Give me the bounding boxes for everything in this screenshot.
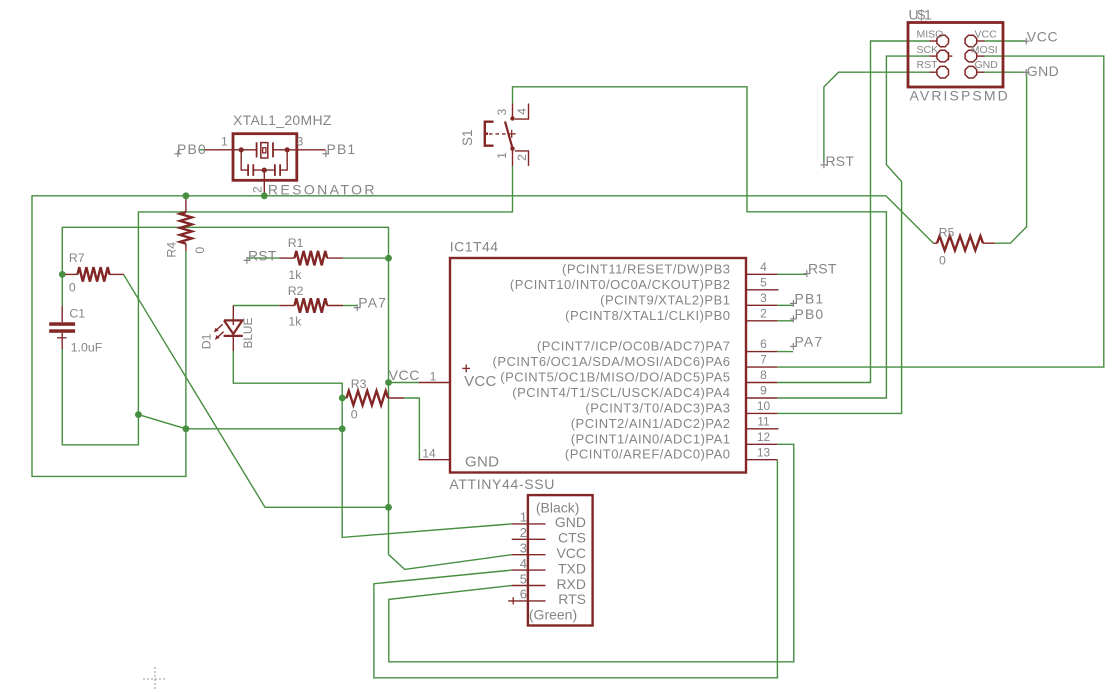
svg-text:7: 7 xyxy=(760,353,767,367)
svg-text:D1: D1 xyxy=(200,333,214,349)
svg-text:3: 3 xyxy=(297,135,304,149)
svg-text:R3: R3 xyxy=(351,377,367,391)
svg-text:0: 0 xyxy=(351,407,358,421)
svg-text:(Green): (Green) xyxy=(529,607,577,623)
svg-text:CTS: CTS xyxy=(558,530,586,546)
svg-text:1: 1 xyxy=(430,369,437,383)
svg-text:RESONATOR: RESONATOR xyxy=(268,182,377,198)
svg-text:VCC: VCC xyxy=(389,367,420,383)
svg-text:(PCINT1/AIN0/ADC1)PA1: (PCINT1/AIN0/ADC1)PA1 xyxy=(571,431,731,446)
svg-text:GND: GND xyxy=(975,59,999,71)
svg-text:1k: 1k xyxy=(288,314,302,328)
svg-text:13: 13 xyxy=(757,445,771,459)
svg-text:PB0: PB0 xyxy=(795,306,825,322)
svg-text:14: 14 xyxy=(422,446,436,460)
svg-text:(Black): (Black) xyxy=(536,499,580,515)
svg-text:PB1: PB1 xyxy=(327,141,357,157)
svg-text:VCC: VCC xyxy=(556,545,586,561)
svg-text:GND: GND xyxy=(555,514,586,530)
svg-text:11: 11 xyxy=(757,414,770,428)
svg-text:(PCINT7/ICP/OC0B/ADC7)PA7: (PCINT7/ICP/OC0B/ADC7)PA7 xyxy=(537,339,731,354)
svg-text:MOSI: MOSI xyxy=(971,44,998,56)
svg-text:RST: RST xyxy=(917,59,939,71)
svg-text:GND: GND xyxy=(1027,63,1059,79)
svg-text:4: 4 xyxy=(760,260,767,274)
svg-text:C1: C1 xyxy=(69,307,85,321)
svg-text:PB1: PB1 xyxy=(795,290,825,306)
svg-text:RST: RST xyxy=(808,261,837,277)
svg-text:PB0: PB0 xyxy=(177,141,207,157)
svg-text:5: 5 xyxy=(760,275,767,289)
svg-text:3: 3 xyxy=(520,541,527,556)
svg-text:3: 3 xyxy=(495,108,509,115)
svg-text:4: 4 xyxy=(515,108,529,115)
svg-text:BLUE: BLUE xyxy=(241,318,255,349)
svg-text:(PCINT4/T1/SCL/USCK/ADC4)PA4: (PCINT4/T1/SCL/USCK/ADC4)PA4 xyxy=(512,385,730,400)
svg-text:2: 2 xyxy=(515,154,529,161)
svg-text:MISO: MISO xyxy=(917,29,944,41)
svg-text:PA7: PA7 xyxy=(358,295,387,311)
svg-text:(PCINT5/OC1B/MISO/DO/ADC5)PA5: (PCINT5/OC1B/MISO/DO/ADC5)PA5 xyxy=(500,370,730,385)
svg-text:R7: R7 xyxy=(69,251,85,265)
svg-text:(PCINT3/T0/ADC3)PA3: (PCINT3/T0/ADC3)PA3 xyxy=(585,400,730,415)
svg-text:2: 2 xyxy=(760,306,767,320)
svg-text:R1: R1 xyxy=(288,236,304,250)
svg-text:1: 1 xyxy=(221,135,228,149)
svg-text:(PCINT9/XTAL2)PB1: (PCINT9/XTAL2)PB1 xyxy=(600,292,730,307)
svg-text:RXD: RXD xyxy=(556,576,586,592)
svg-text:R4: R4 xyxy=(165,242,179,258)
svg-text:(PCINT11/RESET/DW)PB3: (PCINT11/RESET/DW)PB3 xyxy=(562,261,730,276)
svg-text:4: 4 xyxy=(520,556,527,571)
svg-text:6: 6 xyxy=(520,587,527,602)
svg-text:1.0uF: 1.0uF xyxy=(71,340,103,354)
svg-text:1k: 1k xyxy=(288,268,302,282)
svg-text:IC1T44: IC1T44 xyxy=(450,239,499,255)
svg-text:(PCINT2/AIN1/ADC2)PA2: (PCINT2/AIN1/ADC2)PA2 xyxy=(571,416,731,431)
svg-text:6: 6 xyxy=(760,337,767,351)
svg-text:1: 1 xyxy=(520,510,527,525)
svg-text:VCC: VCC xyxy=(464,373,497,390)
svg-text:(PCINT10/INT0/OC0A/CKOUT)PB2: (PCINT10/INT0/OC0A/CKOUT)PB2 xyxy=(510,277,731,292)
svg-text:S1: S1 xyxy=(460,129,475,146)
svg-text:PA7: PA7 xyxy=(795,333,824,349)
svg-text:(PCINT6/OC1A/SDA/MOSI/ADC6)PA6: (PCINT6/OC1A/SDA/MOSI/ADC6)PA6 xyxy=(493,354,731,369)
svg-text:VCC: VCC xyxy=(1027,29,1058,45)
svg-text:3: 3 xyxy=(760,291,767,305)
svg-text:RST: RST xyxy=(826,153,855,169)
svg-text:TXD: TXD xyxy=(558,560,586,576)
svg-text:GND: GND xyxy=(465,454,499,471)
svg-text:2: 2 xyxy=(251,186,265,193)
svg-text:9: 9 xyxy=(760,384,767,398)
svg-text:(PCINT0/AREF/ADC0)PA0: (PCINT0/AREF/ADC0)PA0 xyxy=(565,447,731,462)
svg-text:R2: R2 xyxy=(288,284,304,298)
svg-text:0: 0 xyxy=(193,247,207,254)
svg-text:10: 10 xyxy=(757,399,771,413)
svg-text:SCK: SCK xyxy=(917,44,939,56)
svg-text:VCC: VCC xyxy=(975,29,998,41)
svg-text:R5: R5 xyxy=(939,225,955,239)
svg-text:0: 0 xyxy=(939,253,946,267)
svg-text:5: 5 xyxy=(520,571,527,586)
svg-text:ATTINY44-SSU: ATTINY44-SSU xyxy=(449,476,555,492)
svg-text:RTS: RTS xyxy=(558,591,586,607)
svg-text:RST: RST xyxy=(248,247,277,263)
svg-text:U$1: U$1 xyxy=(909,6,932,22)
svg-text:AVRISPSMD: AVRISPSMD xyxy=(910,88,1010,104)
svg-text:(PCINT8/XTAL1/CLKI)PB0: (PCINT8/XTAL1/CLKI)PB0 xyxy=(565,308,730,323)
svg-text:2: 2 xyxy=(520,525,527,540)
svg-text:12: 12 xyxy=(757,430,771,444)
svg-text:XTAL1_20MHZ: XTAL1_20MHZ xyxy=(233,112,332,128)
svg-text:8: 8 xyxy=(760,368,767,382)
svg-text:1: 1 xyxy=(495,152,509,159)
svg-text:0: 0 xyxy=(69,281,76,295)
